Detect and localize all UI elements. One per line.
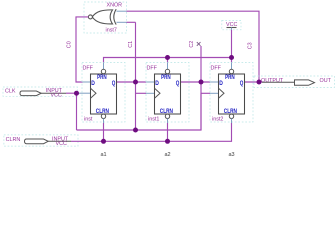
svg-text:DFF: DFF [147,65,158,71]
dff U inst1 (DFF2) [146,63,189,124]
input pin CLRN [4,135,78,147]
wire xnor output to C0 vertical [76,17,88,82]
wire Q2 to D3 (net a2) [181,81,211,83]
junction a2 C2 vertical [199,80,204,85]
svg-text:a1: a1 [101,152,107,158]
svg-text:inst: inst [84,116,93,122]
svg-text:C0: C0 [67,41,73,48]
junction CLK tee [74,91,79,96]
svg-text:D: D [155,81,159,87]
svg-text:PRN: PRN [225,75,235,81]
wire Q3 to output (net a3) [245,81,263,83]
svg-text:VCC: VCC [226,22,237,28]
pin stub clock DFF3 (light blue) [210,92,219,94]
svg-text:DFF: DFF [83,65,94,71]
svg-text:CLK: CLK [5,89,16,95]
junction a3 output [257,80,262,85]
svg-text:C3: C3 [248,42,254,49]
svg-text:D: D [219,81,223,87]
pin stub xnor input top (light blue) [117,10,127,12]
svg-text:C2: C2 [189,41,195,48]
svg-text:PRN: PRN [97,75,107,81]
svg-text:XNOR: XNOR [107,3,123,9]
svg-text:DFF: DFF [211,65,222,71]
wire xnor bottom input to C1 vertical [127,21,136,23]
wire CLK drop to clock rail [76,93,78,130]
junction a1 xnor feedback [133,80,138,85]
svg-text:VCC: VCC [51,93,62,99]
pin stub D input DFF1 (light blue) [83,81,91,83]
wire clock branch DFF3 [201,92,210,94]
svg-text:Q: Q [112,81,116,87]
wire clock branch DFF2 [136,92,147,94]
no-connect x marker [197,42,201,46]
svg-text:inst2: inst2 [212,116,223,122]
junction preset rail VCC DFF3 [229,55,234,60]
pin stub xnor input bottom (light blue) [117,21,127,23]
wire CLRN riser DFF2 [167,123,169,141]
wire PRN riser DFF2 [167,58,169,63]
svg-text:inst7: inst7 [106,28,117,34]
svg-text:C1: C1 [128,41,134,48]
junction clock rail DFF2 branch [133,128,138,133]
selection box XNOR inst7 [84,2,127,33]
svg-text:D: D [91,81,95,87]
wire CLRN riser DFF1 [103,123,105,141]
xnor gate U inst7 body (mirrored) [92,9,116,24]
pin stub D3 (light blue) [210,81,219,83]
junction preset rail DFF2 [165,55,170,60]
svg-text:OUTPUT: OUTPUT [261,78,284,84]
svg-text:VCC: VCC [56,141,67,147]
wire PRN riser DFF3 [231,58,233,63]
svg-text:CLRN: CLRN [6,137,21,143]
wire VCC preset rail [104,58,232,63]
input pin CLK [3,87,78,99]
wire CLK pin to junction [66,92,77,94]
power VCC symbol [222,20,241,29]
svg-text:PRN: PRN [161,75,171,81]
pin stub clock DFF2 (light blue) [146,92,155,94]
svg-text:a2: a2 [165,152,171,158]
pin stub D2 (light blue) [146,81,155,83]
svg-text:inst1: inst1 [148,116,159,122]
output pin OUT [254,76,335,88]
wire C1 vertical (xnor input down to clk rail) [135,22,137,130]
wire CLRN rail [71,123,232,141]
dff U inst (DFF1) [82,63,125,124]
xnor output bubble [88,15,92,19]
junction CLRN riser DFF1 [101,139,106,144]
svg-text:Q: Q [240,81,244,87]
svg-text:Q: Q [176,81,180,87]
wire Q1 to D2 (net a1) [117,81,147,83]
wire xnor top input to a3 net (net C3) [127,11,260,82]
svg-text:a3: a3 [229,152,235,158]
wire C2 vertical with dangling top [200,46,202,130]
wire VCC riser to preset rail [231,30,233,58]
dff U inst2 (DFF3) [210,63,253,124]
junction CLRN riser DFF2 [165,139,170,144]
wire clock rail [77,93,202,130]
svg-text:OUT: OUT [320,78,332,84]
pin stub clock DFF1 (light blue) [77,92,91,94]
